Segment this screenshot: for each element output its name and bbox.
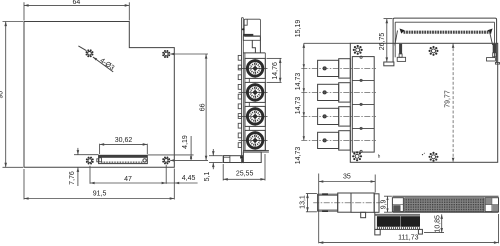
svg-text:5,1: 5,1 (204, 172, 211, 182)
svg-text:47: 47 (124, 176, 132, 183)
svg-text:10,85: 10,85 (434, 215, 441, 233)
svg-text:4,45: 4,45 (182, 175, 196, 182)
svg-text:14,73: 14,73 (295, 97, 302, 115)
svg-text:4,19: 4,19 (182, 135, 189, 149)
svg-text:7,76: 7,76 (69, 171, 76, 185)
svg-text:14,73: 14,73 (295, 147, 302, 165)
svg-text:111,73: 111,73 (398, 235, 418, 242)
svg-text:14,73: 14,73 (295, 73, 302, 91)
svg-text:14,76: 14,76 (272, 62, 279, 80)
svg-text:66: 66 (199, 103, 206, 111)
svg-text:9,9: 9,9 (380, 199, 387, 209)
svg-text:35: 35 (343, 174, 351, 181)
svg-text:91,5: 91,5 (93, 191, 107, 198)
svg-text:15,19: 15,19 (295, 20, 302, 38)
svg-text:79,77: 79,77 (445, 90, 452, 108)
svg-text:30,62: 30,62 (115, 137, 133, 144)
svg-text:25,55: 25,55 (236, 170, 254, 177)
svg-text:13,1: 13,1 (299, 195, 306, 209)
svg-text:90: 90 (0, 91, 5, 99)
svg-text:26,75: 26,75 (379, 33, 386, 51)
svg-text:64: 64 (73, 0, 81, 6)
